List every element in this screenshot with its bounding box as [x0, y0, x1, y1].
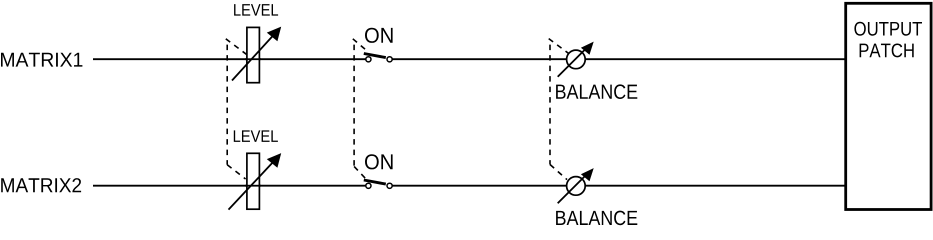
wire MATRIX2 balance-to-patch segment — [585, 185, 845, 187]
wire MATRIX1 input segment — [93, 58, 366, 60]
fader LEVEL (MATRIX2) arrow — [229, 153, 282, 210]
fader LEVEL (MATRIX1) line re-draw through body — [245, 58, 261, 60]
label OUTPUT — [854, 22, 922, 36]
wire MATRIX1 switch-to-balance segment — [392, 58, 566, 60]
wire MATRIX2 input segment — [93, 185, 366, 187]
switch ON (MATRIX1) contacts and lever — [364, 54, 392, 62]
wire MATRIX1 balance-to-patch segment — [585, 58, 845, 60]
wire MATRIX2 switch-to-balance segment — [392, 185, 566, 187]
label MATRIX1 — [1, 53, 82, 67]
label BALANCE (MATRIX2) — [556, 211, 637, 226]
block OUTPUT PATCH box — [846, 3, 931, 209]
label ON (MATRIX1) — [365, 28, 393, 43]
label ON (MATRIX2) — [365, 154, 393, 169]
label BALANCE (MATRIX1) — [556, 84, 637, 99]
fader LEVEL (MATRIX1) body — [247, 27, 260, 82]
fader LEVEL (MATRIX2) line re-draw through body — [245, 185, 261, 187]
label LEVEL (MATRIX1) — [234, 4, 278, 15]
label PATCH — [860, 43, 914, 57]
fader LEVEL (MATRIX1) arrow — [232, 27, 281, 81]
label MATRIX2 — [1, 178, 81, 192]
control link BALANCE gang (dashed) — [549, 39, 569, 180]
fader LEVEL (MATRIX2) body — [247, 153, 260, 209]
control link ON gang (dashed) — [353, 39, 366, 179]
pot BALANCE (MATRIX2) body — [558, 168, 594, 203]
switch ON (MATRIX2) contacts and lever — [364, 180, 392, 188]
label LEVEL (MATRIX2) — [234, 130, 278, 141]
pot BALANCE (MATRIX1) body — [558, 42, 594, 77]
control link LEVEL gang (dashed) — [226, 39, 247, 179]
